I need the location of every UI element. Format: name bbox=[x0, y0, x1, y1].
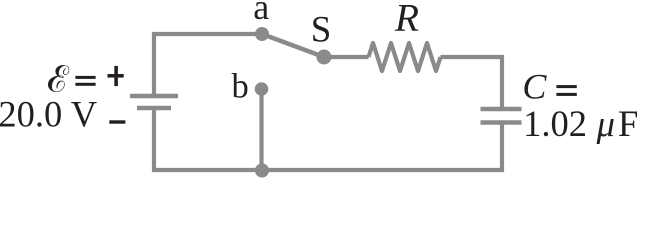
svg-text:1.02: 1.02 bbox=[523, 103, 587, 144]
wire stub from contact b to bottom junction bbox=[259, 89, 263, 170]
label script E (emf symbol) bbox=[48, 65, 69, 92]
wire from battery negative terminal down and bottom wire to capacitor bbox=[154, 108, 502, 170]
switch contact b dot bbox=[255, 82, 269, 96]
equals sign of emf label bbox=[75, 76, 95, 86]
plus sign (battery positive) bbox=[108, 66, 124, 86]
svg-text:b: b bbox=[232, 68, 249, 106]
battery long plate (positive terminal) bbox=[130, 94, 178, 98]
switch S arm (closed to contact a) bbox=[262, 34, 324, 57]
capacitor top plate bbox=[481, 107, 522, 111]
wire from resistor to top-right corner and down to capacitor bbox=[441, 57, 503, 107]
svg-text:R: R bbox=[394, 0, 419, 40]
svg-text:μ: μ bbox=[596, 103, 615, 144]
equals sign of capacitor label bbox=[556, 85, 576, 96]
svg-text:S: S bbox=[311, 10, 332, 51]
svg-text:20.0 V: 20.0 V bbox=[0, 93, 97, 134]
capacitor bottom plate bbox=[481, 120, 522, 124]
switch pivot dot bbox=[317, 50, 332, 65]
junction node on bottom wire bbox=[255, 164, 269, 178]
minus sign (battery negative) bbox=[109, 120, 125, 123]
svg-text:a: a bbox=[253, 0, 269, 27]
svg-text:C: C bbox=[522, 67, 547, 107]
wire top from left corner to switch contact a bbox=[154, 34, 262, 94]
svg-text:F: F bbox=[618, 103, 638, 144]
switch contact a dot bbox=[255, 27, 269, 41]
wire from switch pivot to resistor bbox=[324, 55, 369, 59]
resistor R zigzag bbox=[369, 43, 441, 71]
battery short plate (negative terminal) bbox=[137, 106, 171, 110]
